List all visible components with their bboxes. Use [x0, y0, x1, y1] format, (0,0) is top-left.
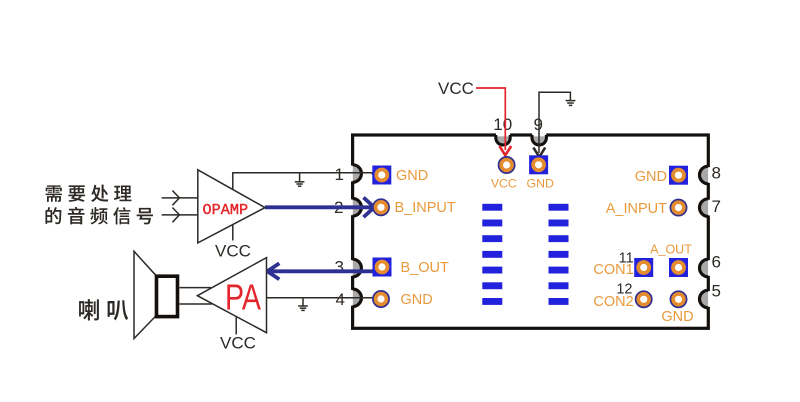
ground symbol top right	[566, 101, 576, 106]
svg-text:CON2: CON2	[593, 294, 633, 310]
square pad pin1 GND	[372, 166, 391, 185]
svg-text:VCC: VCC	[491, 176, 517, 190]
castellated pad pin 3	[351, 259, 362, 277]
text need-to-process line1	[46, 185, 132, 202]
svg-text:CON1: CON1	[593, 262, 633, 278]
castellated pad pin 8	[700, 166, 711, 184]
svg-text:VCC: VCC	[438, 79, 474, 98]
castellated pad pin 7	[700, 199, 711, 217]
header footprint bars column GND	[549, 204, 569, 305]
square pad pin6 A_OUT	[669, 258, 688, 277]
text audio-signal line2	[45, 207, 153, 224]
square pad pin11 CON1	[634, 258, 653, 277]
square pad pin8 GND	[669, 166, 688, 185]
svg-text:4: 4	[336, 290, 345, 309]
wire GND black to pin9	[539, 92, 570, 153]
castellated pad pin 10	[496, 133, 510, 145]
castellated pad pin 2	[351, 199, 362, 217]
svg-text:3: 3	[335, 258, 344, 277]
amplifier PA triangle	[197, 258, 266, 333]
through-hole pad pin4 GND	[373, 291, 389, 307]
castellated pad pin 5	[700, 290, 711, 308]
svg-text:VCC: VCC	[220, 334, 256, 353]
through-hole pad pin12 CON2	[636, 291, 652, 307]
through-hole pad pin2 B_INPUT	[373, 199, 389, 215]
castellated pad pin 1	[351, 165, 362, 183]
svg-text:B_OUT: B_OUT	[401, 260, 449, 276]
svg-text:8: 8	[712, 164, 721, 183]
ground symbol G1	[295, 173, 305, 186]
svg-text:GND: GND	[401, 292, 433, 308]
svg-text:OPAMP: OPAMP	[203, 201, 249, 219]
svg-text:GND: GND	[661, 309, 693, 325]
svg-text:GND: GND	[527, 176, 554, 190]
header footprint bars column VCC	[482, 204, 502, 305]
square pad pin3 B_OUT	[373, 258, 392, 277]
svg-text:VCC: VCC	[215, 242, 251, 261]
square pad pin9 GND	[529, 155, 548, 174]
input arrow 1	[162, 191, 198, 206]
through-hole pad pin5 GND	[670, 291, 686, 307]
svg-text:7: 7	[712, 197, 721, 216]
wire VCC stub PA	[235, 317, 237, 335]
text speaker label	[79, 299, 128, 320]
castellated pad pin 4	[351, 289, 362, 307]
speaker driver rect	[157, 276, 178, 316]
speaker wires	[180, 288, 213, 304]
arrow OPAMP output to pin2 B_INPUT	[265, 198, 374, 218]
op-amp OPAMP triangle	[198, 170, 265, 243]
svg-text:6: 6	[712, 253, 721, 272]
through-hole pad pin10 VCC	[499, 157, 515, 173]
svg-text:A_INPUT: A_INPUT	[606, 201, 667, 217]
wire pin1 from opamp top to pad GND	[233, 173, 373, 190]
wire VCC stub opamp	[232, 225, 234, 241]
input arrow 2	[162, 208, 198, 223]
svg-text:GND: GND	[635, 169, 667, 185]
svg-text:5: 5	[712, 282, 721, 301]
svg-text:GND: GND	[396, 168, 428, 184]
through-hole pad pin7 A_INPUT	[670, 200, 686, 216]
arrow pin3 B_OUT to PA	[267, 263, 374, 279]
svg-text:B_INPUT: B_INPUT	[395, 200, 456, 216]
ground symbol G2	[298, 298, 308, 311]
castellated pad pin 6	[700, 259, 711, 277]
speaker cone	[134, 251, 156, 338]
svg-text:A_OUT: A_OUT	[650, 242, 692, 256]
castellated pad pin 9	[532, 133, 546, 145]
module PCB body U1	[353, 135, 709, 328]
svg-text:10: 10	[493, 115, 512, 134]
wire VCC red to pin10	[476, 88, 505, 150]
svg-text:1: 1	[335, 165, 344, 184]
wire pin4 from PA to pad GND	[267, 297, 375, 299]
svg-text:PA: PA	[225, 277, 261, 318]
